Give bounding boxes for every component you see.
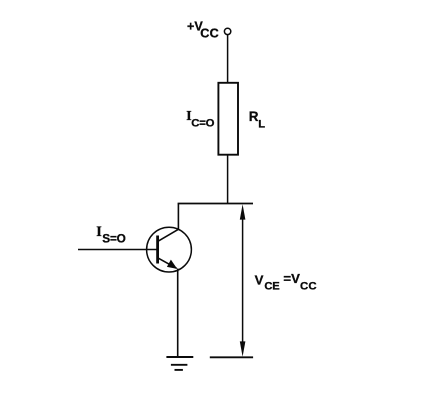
label IB=0 [96,224,125,246]
base wire [78,249,158,251]
label VCE = VCC [255,271,317,293]
ground [166,357,193,370]
wire Vcc terminal to resistor RL [227,35,229,83]
label +Vcc [187,19,219,40]
svg-text:CC: CC [300,281,317,293]
bottom reference line [210,356,253,358]
svg-text:CE: CE [264,281,280,293]
transistor base bar [156,236,159,264]
svg-text:=V: =V [283,271,300,286]
svg-text:C=O: C=O [191,117,214,129]
wire resistor RL to collector node [227,155,229,204]
collector wire [177,204,179,230]
svg-text:L: L [258,118,265,130]
emitter wire [177,269,179,358]
VCE measurement arrow [240,204,246,357]
wire collector node horizontal [178,203,253,205]
label RL [249,109,265,130]
emitter arrowhead [167,260,177,269]
label IC=0 [186,108,214,129]
collector diagonal [158,229,179,241]
svg-text:CC: CC [200,26,219,40]
svg-text:S=O: S=O [102,232,125,246]
Vcc terminal [224,28,230,34]
transistor Q1 body circle [147,227,192,272]
svg-text:V: V [255,273,264,288]
resistor RL [218,83,238,155]
emitter diagonal [158,258,177,268]
